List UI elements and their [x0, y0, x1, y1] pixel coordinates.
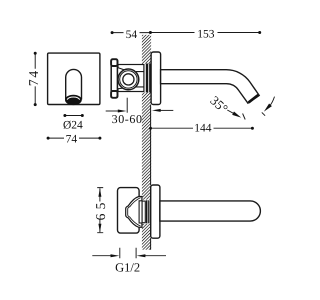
wall pass-through white gap (lower valve): [142, 200, 151, 224]
dot 74 bottom right: [98, 137, 101, 140]
G1/2 left arrow (points right): [111, 254, 120, 257]
dim 74 left line: [34, 53, 36, 104]
dot 144 left: [149, 127, 152, 130]
bell inner line: [128, 198, 141, 227]
65 down arrow: [98, 224, 101, 233]
spout body: [161, 70, 260, 104]
dot 74 left top: [34, 52, 37, 55]
dot 54/153 shared: [149, 31, 152, 34]
dim G1/2 left line: [92, 255, 112, 257]
dim G1/2 ticks: [120, 248, 136, 259]
30-60 left arrow: [118, 110, 127, 113]
cartridge bell: [126, 197, 142, 228]
dim 30-60 tick: [126, 98, 128, 113]
flange (side): [151, 52, 161, 105]
dim D24 line: [65, 115, 82, 117]
valve inner circle: [123, 74, 134, 85]
valve ring circle: [120, 71, 137, 88]
dim 30-60 right arrow line: [159, 109, 174, 111]
dim 65 line: [99, 188, 101, 232]
dot D24 left: [63, 114, 66, 117]
spout dome (front silhouette): [66, 69, 82, 99]
wall pass-through white gap (upper valve): [144, 64, 152, 93]
dot 153 right: [258, 31, 261, 34]
valve body box: [118, 188, 140, 234]
svg-text:74: 74: [26, 69, 41, 86]
cartridge cylinder: [139, 201, 142, 223]
svg-text:144: 144: [194, 123, 212, 135]
spout tube (plan): [160, 201, 261, 221]
outlet inner highlight: [67, 97, 80, 100]
svg-text:153: 153: [197, 28, 215, 40]
dot 144 right: [251, 127, 254, 130]
bracket bottom cap: [111, 91, 117, 98]
svg-text:Ø24: Ø24: [63, 119, 83, 131]
dim 65 ticks: [97, 188, 103, 233]
dot D24 right: [81, 114, 84, 117]
curved arrow arrowhead: [264, 104, 272, 112]
wall surface line: [150, 105, 152, 249]
svg-text:54: 54: [126, 29, 138, 41]
dim 54 line: [112, 32, 150, 34]
valve housing box: [118, 65, 144, 92]
mounting nut (dark): [146, 64, 152, 93]
bracket bar: [111, 59, 117, 97]
30-60 right arrow: [152, 109, 161, 112]
dot 74 left bottom: [34, 103, 37, 106]
neck lines to wall: [136, 72, 144, 87]
35deg leader arrowhead: [232, 112, 241, 118]
bracket top cap: [111, 59, 117, 66]
curved arrow tick: [262, 112, 265, 115]
svg-text:74: 74: [66, 133, 78, 145]
wall plate (square escutcheon): [48, 53, 100, 104]
dimension end dots: [34, 31, 262, 140]
dim 74 bottom line: [48, 137, 100, 139]
dim 30-60 left arrow line: [106, 110, 120, 112]
arrowheads: [98, 104, 272, 258]
35deg leader: [227, 110, 234, 114]
flange (plan): [151, 185, 160, 238]
dot 54 left: [111, 31, 114, 34]
dim 153 line: [150, 32, 259, 34]
dim 144 line: [151, 127, 253, 129]
svg-text:30-60: 30-60: [112, 112, 143, 126]
dim G1/2 right line: [144, 255, 166, 257]
valve outer circle: [118, 69, 139, 90]
wall (hatched): [142, 35, 151, 250]
svg-text:G1/2: G1/2: [115, 261, 140, 275]
65 up arrow: [98, 188, 101, 197]
dot 74 bottom left: [47, 137, 50, 140]
G1/2 right arrow (points left): [137, 254, 146, 257]
35deg tick: [243, 114, 246, 120]
spout outlet face (thick): [249, 95, 259, 103]
outlet ellipse (black): [65, 95, 82, 105]
mounting nut (dark, plan): [146, 200, 150, 223]
svg-text:65: 65: [93, 198, 108, 220]
curved arrow: [269, 97, 274, 107]
bracket wings: [118, 68, 130, 89]
